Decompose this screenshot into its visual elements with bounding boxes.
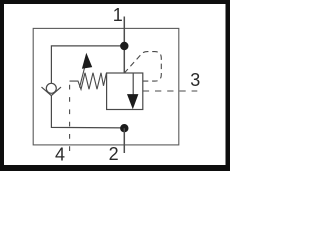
main stage valve square (107, 73, 143, 110)
pilot loop dashed line (125, 52, 162, 82)
check valve ball (46, 83, 56, 93)
svg-text:2: 2 (109, 144, 119, 164)
valve assembly outer envelope (33, 28, 179, 144)
port 1 line (123, 17, 125, 74)
junction dot node 2 (120, 124, 128, 132)
port 2 line (123, 128, 125, 153)
port 4 pilot dashed line (69, 80, 71, 153)
junction dot node 1 (120, 42, 128, 50)
svg-text:4: 4 (55, 145, 65, 165)
port label 1 (113, 5, 123, 25)
svg-text:1: 1 (113, 5, 123, 25)
port 3 pilot dashed line (143, 90, 198, 92)
adjustment arrow head (82, 53, 92, 69)
svg-text:3: 3 (190, 70, 200, 90)
port label 2 (109, 144, 119, 164)
flow path line inside square (132, 73, 134, 96)
inner pilot boundary (top edge, left edge, bottom edge) (51, 46, 124, 128)
spring (70, 73, 107, 90)
port label 3 (190, 70, 200, 90)
port label 4 (55, 145, 65, 165)
flow path arrowhead (127, 94, 138, 109)
adjustment arrow shaft (80, 66, 86, 88)
check valve seat (42, 87, 62, 96)
